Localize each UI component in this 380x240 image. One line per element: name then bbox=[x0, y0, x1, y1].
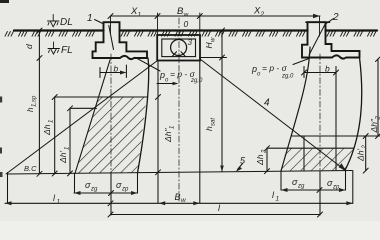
svg-text:d: d bbox=[24, 44, 34, 49]
p0 leader 2 bbox=[293, 59, 309, 65]
dim dh2pp bbox=[377, 59, 379, 136]
footing F1 bbox=[93, 22, 148, 59]
right stress body right curve bbox=[345, 58, 362, 171]
dim dh2p bbox=[365, 136, 367, 171]
svg-text:zp: zp bbox=[332, 185, 340, 191]
svg-text:2: 2 bbox=[262, 149, 268, 154]
bottom row l1 Bw l1 bbox=[5, 202, 353, 204]
sigma row left bbox=[74, 192, 138, 194]
svg-text:b: b bbox=[325, 64, 330, 74]
p0 arrow to axis level bbox=[157, 83, 176, 85]
right stress body left curve bbox=[281, 47, 310, 171]
left vertical dim d + h1sp bbox=[38, 31, 40, 175]
svg-text:zg: zg bbox=[90, 187, 98, 193]
Hw + hsat vertical bbox=[221, 31, 223, 172]
b dim left bbox=[100, 72, 125, 74]
trench axis dash-dot bbox=[178, 18, 180, 201]
scan artifact left edge marks bbox=[0, 97, 2, 103]
svg-text:1: 1 bbox=[170, 126, 176, 129]
svg-text:DL: DL bbox=[60, 17, 73, 28]
ground line bbox=[14, 29, 377, 31]
dim dh1p bbox=[69, 108, 71, 173]
svg-text:1: 1 bbox=[87, 13, 93, 24]
dim dh1pp vertical (trench left ext) bbox=[157, 61, 159, 204]
svg-text:2: 2 bbox=[376, 116, 380, 121]
dim ticks top row bbox=[108, 14, 202, 19]
svg-text:B: B bbox=[175, 192, 181, 202]
left body axis dash-dot bbox=[110, 54, 112, 174]
top dimension line X1 Bw X2 bbox=[111, 15, 321, 17]
svg-text:sat: sat bbox=[211, 118, 217, 126]
leader 2 bbox=[309, 19, 334, 56]
svg-text:4: 4 bbox=[264, 98, 270, 109]
svg-text:zg,0: zg,0 bbox=[190, 78, 203, 84]
svg-text:Δh': Δh' bbox=[58, 151, 68, 164]
svg-text:= p - σ: = p - σ bbox=[262, 63, 288, 73]
svg-text:1: 1 bbox=[138, 12, 142, 19]
svg-text:zg: zg bbox=[297, 184, 305, 190]
FL level mark bbox=[48, 42, 60, 54]
svg-text:zp: zp bbox=[121, 187, 129, 193]
scan artifact top-left corner bbox=[0, 0, 9, 3]
svg-text:Δh: Δh bbox=[42, 124, 52, 136]
diagonal line 4 bbox=[200, 59, 346, 171]
rotated labels bbox=[24, 37, 380, 166]
leader 1 bbox=[95, 20, 114, 50]
dim dh1 bbox=[54, 97, 56, 174]
svg-text:3: 3 bbox=[188, 38, 193, 47]
svg-text:0: 0 bbox=[184, 19, 189, 29]
svg-text:1: 1 bbox=[57, 199, 61, 206]
svg-text:1: 1 bbox=[49, 120, 55, 123]
svg-text:zg,0: zg,0 bbox=[281, 74, 294, 80]
left hatch area bbox=[75, 97, 147, 174]
svg-text:FL: FL bbox=[61, 45, 73, 56]
trench box outer bbox=[157, 35, 200, 61]
svg-text:1: 1 bbox=[276, 196, 280, 203]
svg-text:1,sp: 1,sp bbox=[32, 95, 38, 107]
B.C line bbox=[8, 171, 353, 175]
dim dh2 bbox=[266, 148, 268, 171]
svg-text:2: 2 bbox=[332, 12, 339, 23]
diagonal from trench left corner bbox=[6, 61, 158, 175]
DL level mark bbox=[48, 15, 60, 27]
right inner vertical 304 lower bbox=[303, 136, 305, 171]
pipe cradle bbox=[172, 52, 186, 57]
p0 leader 1 bbox=[135, 57, 160, 71]
svg-text:2: 2 bbox=[362, 145, 368, 150]
svg-text:Δh: Δh bbox=[255, 154, 265, 166]
footing F2 bbox=[302, 22, 360, 58]
right hatch top line y148 bbox=[267, 147, 354, 149]
left stress body left edge bbox=[75, 60, 110, 173]
sigma row right bbox=[281, 189, 346, 191]
svg-text:1: 1 bbox=[65, 147, 71, 150]
ground hatch strokes bbox=[5, 32, 376, 37]
footing F2 cap bar bbox=[306, 21, 330, 23]
right hatch area bbox=[281, 148, 354, 171]
trench right ext down bbox=[199, 61, 201, 204]
svg-text:B.C: B.C bbox=[24, 164, 37, 173]
svg-text:Δh': Δh' bbox=[356, 149, 366, 162]
svg-text:b: b bbox=[114, 64, 119, 74]
pipe P bbox=[171, 40, 187, 56]
trench box inner bbox=[162, 39, 196, 57]
svg-text:w: w bbox=[211, 37, 217, 42]
bottom row l bbox=[111, 214, 321, 216]
label5 leader bbox=[238, 164, 243, 170]
b dim right bbox=[304, 72, 336, 74]
right internal line y136 bbox=[292, 135, 380, 137]
right axis dash-dot bbox=[319, 54, 321, 171]
left stress body right curve bbox=[138, 58, 149, 173]
svg-text:2: 2 bbox=[260, 11, 265, 18]
hatch top line left body bbox=[55, 96, 147, 98]
